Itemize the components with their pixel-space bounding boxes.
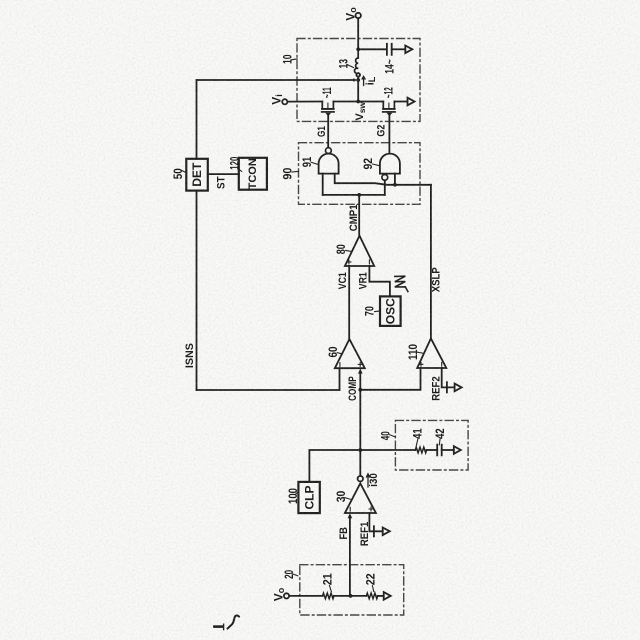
leader tick 80	[346, 250, 352, 251]
transistor Q12 channel bar	[383, 108, 395, 110]
node Vsw (rail junction dot)	[356, 100, 360, 104]
handwritten mark bottom-left	[214, 625, 222, 628]
FB arrowhead into U30	[348, 513, 353, 518]
op-amp U30 (error amp)	[345, 483, 376, 513]
ground arrow (REF2)	[455, 384, 462, 392]
capacitor C42	[437, 445, 442, 456]
leader tick 40	[390, 435, 395, 437]
wire R22 to ground arrow	[378, 595, 384, 597]
ground arrow (C42)	[454, 446, 461, 454]
transistor Q12 gate arrow	[387, 113, 393, 116]
leader tick 50	[182, 171, 186, 173]
capacitor 14	[387, 44, 392, 55]
resistor R21	[323, 593, 334, 599]
wire FB	[349, 518, 351, 596]
wire capacitor 14 to ground arrow	[392, 48, 406, 50]
wire transistor 12 to ground arrow	[394, 101, 407, 103]
leader tick 70	[375, 310, 380, 313]
dashed block 40 (compensation)	[395, 420, 468, 470]
box CLP 100	[298, 482, 319, 513]
i30 current arrow	[367, 474, 370, 487]
transistor Q11 body stub	[327, 103, 329, 109]
leader tick 22	[372, 586, 373, 592]
leader tick 91	[311, 162, 318, 164]
dashed block 90 (gate logic)	[299, 143, 421, 205]
COMP arrowhead into U60	[358, 368, 363, 373]
wire gate 91 input1	[322, 174, 324, 195]
leader tick 90	[292, 170, 298, 173]
wire CMP1 vertical	[358, 195, 360, 236]
nand gate 92 input bubble	[382, 175, 388, 181]
leader tick 42	[438, 439, 441, 445]
node B (inductor/ISNS junction dot)	[356, 78, 360, 82]
node G (FB junction dot)	[349, 594, 353, 598]
wire node B to Vsw rail	[357, 80, 359, 102]
wire rail Vsw to transistor 12	[358, 101, 383, 103]
dashed block 10 (power stage)	[297, 39, 420, 122]
U110 plus mark	[419, 362, 423, 366]
box OSC 70	[380, 296, 401, 326]
op-amp U80 (PWM comparator)	[345, 236, 374, 266]
wire Vo to node A	[357, 18, 359, 49]
wire CMP1 horizontal	[323, 194, 385, 196]
wire VR1 (80 in to OSC)	[369, 266, 390, 296]
leader tick 30	[345, 498, 350, 500]
node E (COMP junction at 110 line)	[358, 388, 362, 392]
wire REF1	[369, 513, 382, 531]
leader tick 41	[416, 439, 418, 446]
node F (COMP/40 junction dot)	[358, 448, 362, 452]
transistor Q12 body stub	[388, 103, 390, 109]
transistor Q11 channel bar	[322, 108, 334, 110]
wire ST (DET to TCON)	[208, 173, 239, 175]
leader tick 92	[373, 164, 380, 166]
wire rail Q11 to Vsw	[333, 101, 358, 103]
wire node G to resistor 22	[351, 595, 367, 597]
transistor Q11 channel	[322, 102, 333, 109]
U60 plus mark	[358, 363, 362, 367]
nand gate 91 body	[319, 154, 339, 174]
wire node A to capacitor 14	[358, 48, 386, 50]
ground arrow (cap 14)	[405, 46, 412, 54]
wire gate 91 input2 to XSLP net	[335, 174, 431, 185]
wire Vi to transistor 11	[287, 101, 322, 103]
wire COMP to resistor 41	[360, 449, 415, 451]
wire ISNS down to DET	[196, 80, 198, 159]
op-amp U60 (current comparator)	[335, 339, 365, 368]
resistor R41	[415, 447, 426, 453]
leader tick 120	[238, 169, 242, 172]
resistor R22	[366, 593, 377, 599]
wire VC1 (60 out to 80 in)	[348, 266, 350, 339]
wire G2 (gate 92 to Q12)	[388, 115, 390, 154]
leader tick 100	[296, 492, 298, 494]
leader tick 21	[330, 586, 332, 592]
wire ISNS up to U60 input	[339, 368, 341, 390]
node D (CMP1 junction dot)	[357, 193, 361, 197]
wire REF2	[442, 368, 455, 387]
node C (gate92 input2 junction dot)	[393, 183, 397, 187]
iL current arrow	[362, 76, 365, 85]
wire ISNS bottom horizontal	[197, 389, 340, 391]
REF2 bar	[446, 382, 448, 392]
wire inductor to node B	[357, 77, 359, 80]
inductor 13	[354, 49, 358, 73]
wire COMP to comparator 110	[360, 368, 420, 390]
wire XSLP vertical	[430, 185, 432, 339]
ground arrow (REF1)	[383, 528, 390, 536]
nand gate 91 bubble	[326, 148, 332, 154]
U30 minus mark	[349, 507, 351, 511]
wire COMP to CLP corner	[309, 450, 360, 482]
wire ISNS top horizontal	[197, 79, 354, 81]
transistor Q11 gate plate	[322, 111, 334, 113]
terminal Vo (bottom)	[284, 593, 289, 598]
op-amp U110 (sleep comparator)	[417, 338, 446, 368]
wire G1 (gate 91 to Q11)	[327, 115, 329, 148]
ISNS arrowhead into node B	[353, 78, 357, 82]
terminal Vo (top)	[356, 13, 361, 18]
leader tick 110	[418, 352, 424, 353]
U110 minus mark	[441, 362, 443, 366]
transistor Q12 gate plate	[383, 111, 395, 113]
wire COMP up to U60 with arrowhead	[359, 373, 361, 450]
wire Vo to resistor 21	[289, 595, 323, 597]
nand gate 92 body	[380, 154, 400, 174]
leader tick 20	[292, 574, 298, 576]
wire R21 to node G	[334, 595, 351, 597]
sawtooth waveform mark	[395, 276, 408, 291]
transistor Q11 gate arrow	[325, 113, 331, 116]
inductor 13 coil-end circle	[356, 73, 360, 77]
box TCON 120	[239, 158, 267, 190]
dashed block 20 (feedback divider)	[300, 565, 404, 615]
box DET 50	[186, 159, 208, 191]
leader tick 10	[292, 58, 297, 61]
node A (Vo junction dot)	[356, 47, 360, 51]
current source circle i30	[358, 476, 363, 481]
wire i30 to COMP node	[359, 450, 361, 476]
wire DET to corner	[196, 191, 198, 390]
REF1 bar	[373, 526, 375, 536]
leader tick 60	[337, 353, 342, 354]
U30 plus mark	[369, 507, 373, 511]
wire C42 to ground arrow	[442, 449, 454, 451]
wire gate 92 bubble stem	[384, 180, 386, 195]
wire R41 to capacitor 42	[427, 449, 438, 451]
ground arrow (R22)	[384, 592, 391, 600]
leader tick 13	[347, 65, 354, 68]
U80 minus mark	[368, 260, 370, 264]
U60 minus mark	[339, 363, 341, 367]
wire gate 92 input2	[394, 174, 396, 185]
ground arrow (rail)	[408, 98, 415, 106]
terminal Vi	[282, 99, 287, 104]
transistor Q12 channel	[383, 102, 394, 109]
U80 plus mark	[347, 260, 351, 264]
